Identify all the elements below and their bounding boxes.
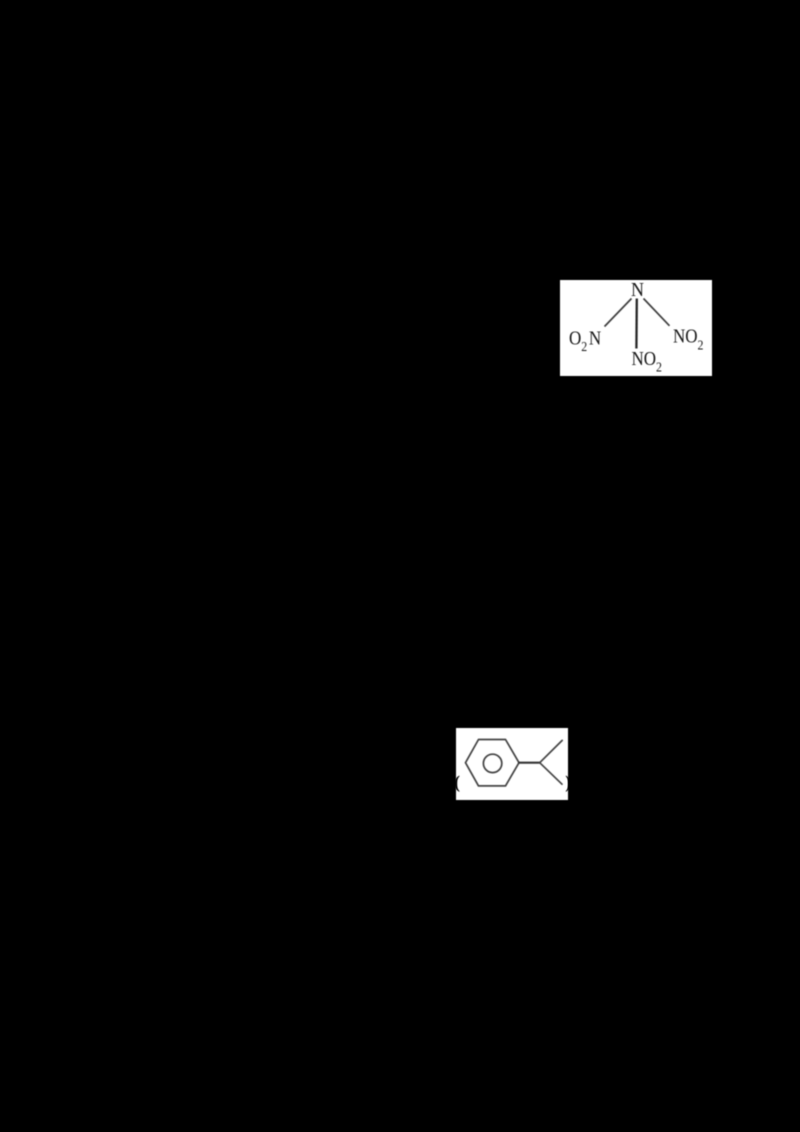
svg-text:NO2: NO2	[673, 325, 703, 352]
bond N to bottom NO2	[635, 299, 638, 349]
figure box 1: trinitroamine N(NO2)3 structure	[560, 280, 712, 376]
svg-text:NO2: NO2	[632, 348, 662, 375]
bond ring to CH	[519, 762, 540, 764]
parentheses overlay around figure box 2	[440, 758, 590, 804]
bond CH to upper CH3	[540, 740, 563, 762]
figure box 2: cumene (isopropylbenzene) structure	[456, 728, 568, 800]
bond N to left NO2	[605, 299, 632, 327]
svg-text:(: (	[454, 772, 460, 793]
svg-text:N: N	[631, 280, 644, 301]
svg-text:): )	[565, 772, 571, 793]
benzene ring hexagon	[466, 740, 520, 786]
bond N to right NO2	[644, 299, 670, 326]
bond CH to lower CH3	[540, 763, 562, 785]
aromatic circle	[483, 754, 501, 772]
svg-text:O2N: O2N	[569, 327, 601, 354]
